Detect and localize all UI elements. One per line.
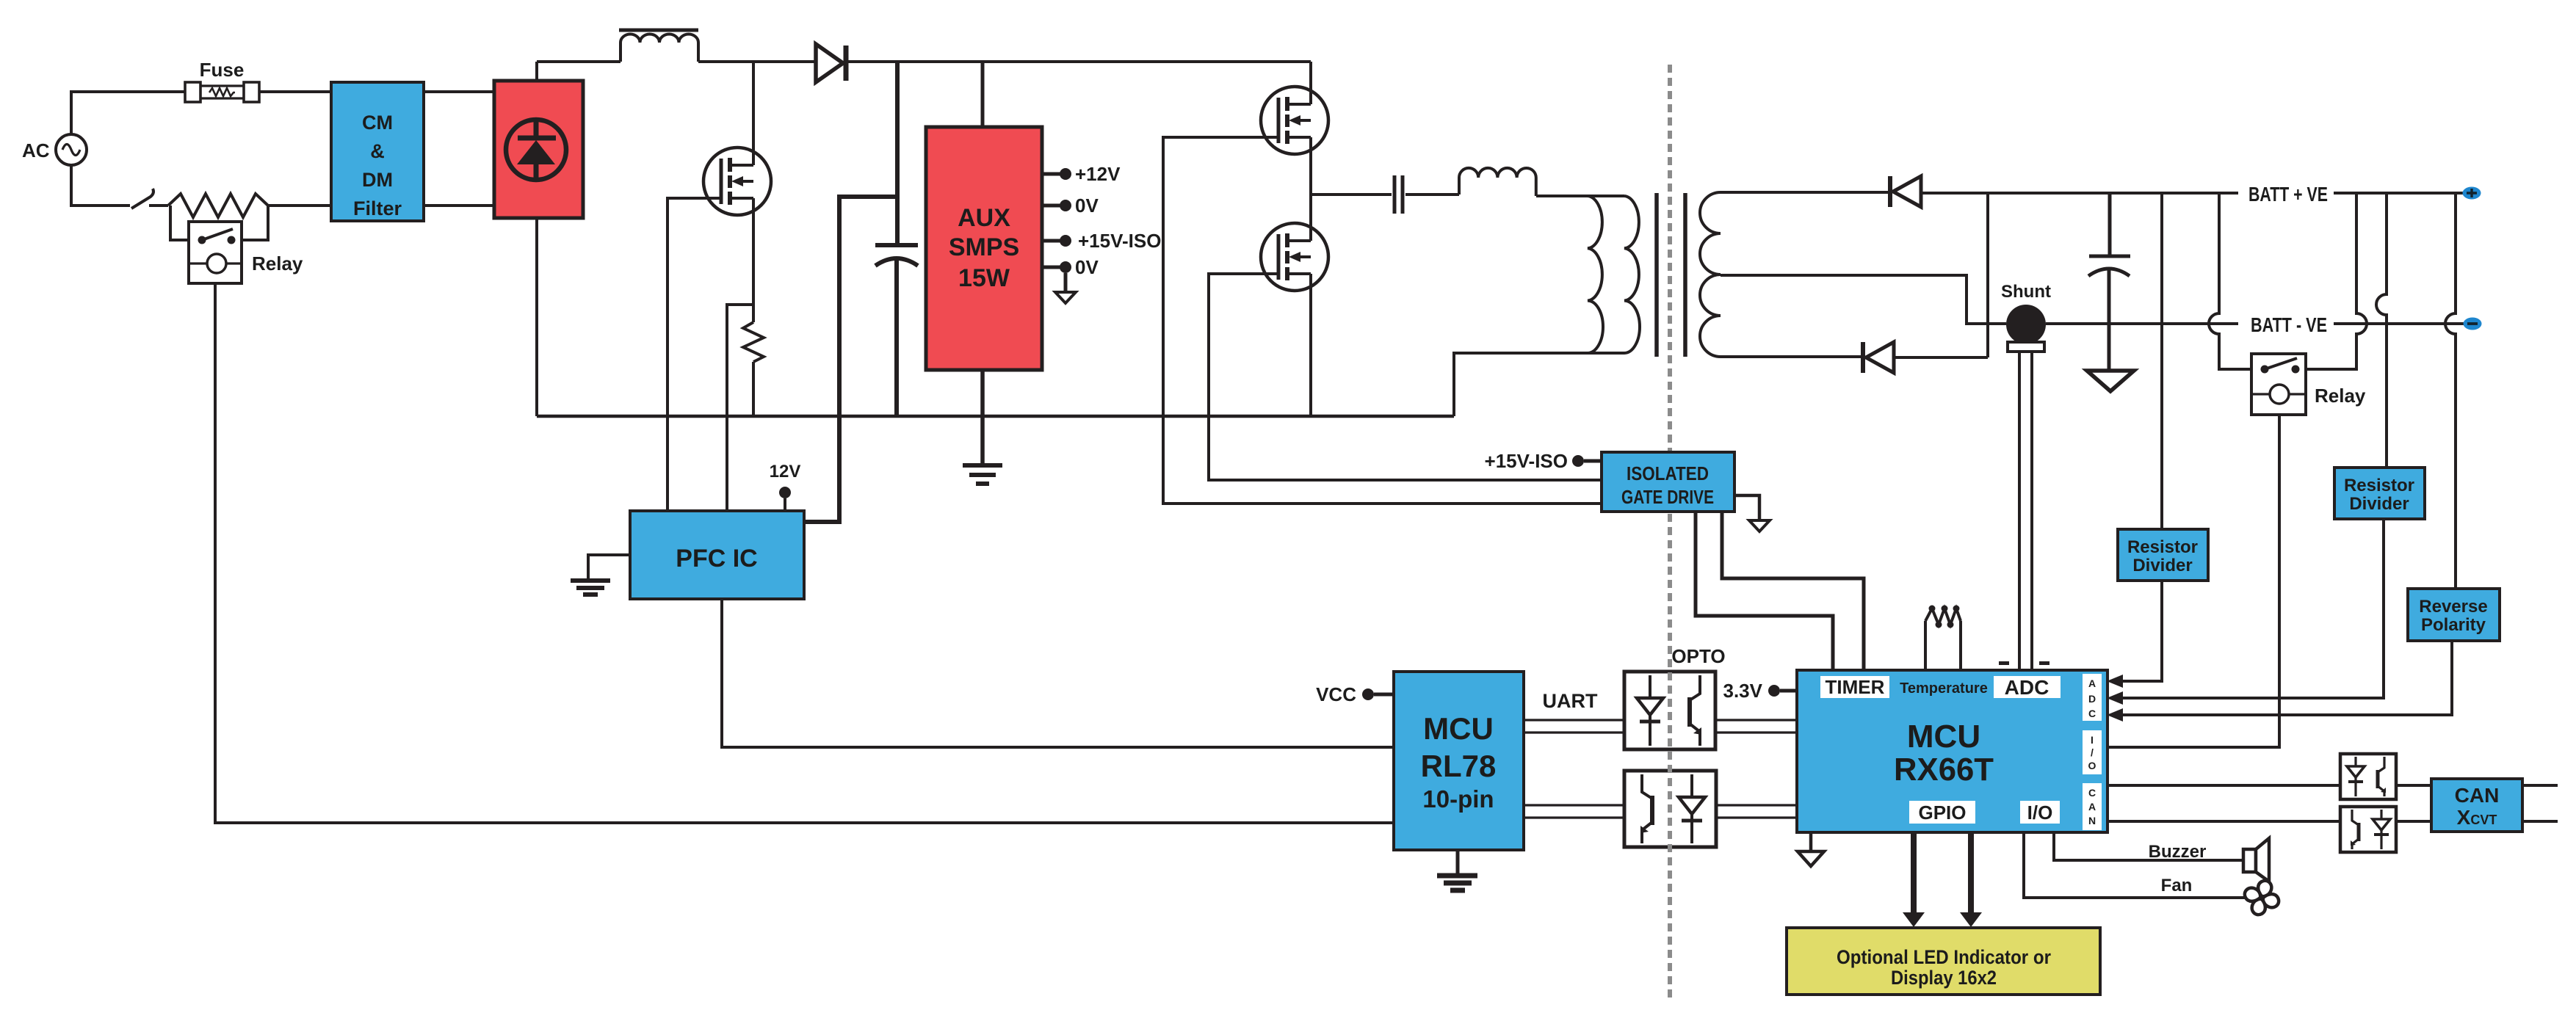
ground RL78 <box>1437 850 1477 890</box>
ground RX66T arrow <box>1798 832 1824 866</box>
wire gate drive output A to TIMER <box>1696 512 1833 670</box>
svg-text:AUX: AUX <box>958 204 1010 232</box>
transformer T1 secondary winding <box>1700 192 1721 357</box>
TIMER port <box>1820 676 1889 698</box>
svg-text:12V: 12V <box>770 462 801 482</box>
PFC IC block <box>630 511 804 599</box>
svg-text:BATT + VE: BATT + VE <box>2248 183 2328 206</box>
svg-text:Fan: Fan <box>2161 876 2193 895</box>
wire reverse polarity to ADC arrow <box>2107 641 2452 722</box>
wire BATT+VE rail <box>1921 192 2463 195</box>
wire gate drive output B to TIMER <box>1722 512 1864 670</box>
wire Q2 source to mid node <box>1309 137 1312 241</box>
wire CAN B to opto U5 <box>2108 820 2340 823</box>
capacitor C2 resonant <box>1394 175 1403 214</box>
wire Q1 drain <box>752 62 755 165</box>
MOSFET Q3 low side <box>1261 223 1328 291</box>
MOSFET Q2 high side <box>1261 87 1328 154</box>
AUX pin 0V iso <box>1042 256 1099 278</box>
GPIO port <box>1909 801 1975 824</box>
svg-text:BATT - VE: BATT - VE <box>2251 313 2327 336</box>
wire T1 primary return <box>1454 353 1624 416</box>
svg-text:Divider: Divider <box>2349 494 2409 514</box>
wire AUX ground stem <box>980 370 985 463</box>
wire PFC IC to C1 node <box>804 197 895 522</box>
bridge rectifier BR1 <box>494 81 583 218</box>
svg-text:10-pin: 10-pin <box>1422 785 1494 813</box>
optocoupler U5 <box>2340 807 2396 852</box>
wire Q3 gate to gate drive <box>1209 274 1602 480</box>
svg-text:GPIO: GPIO <box>1918 802 1966 824</box>
svg-text:UART: UART <box>1543 690 1598 712</box>
svg-text:Shunt: Shunt <box>2001 282 2051 302</box>
svg-text:VCC: VCC <box>1316 683 1356 705</box>
wire bridge to ground bus <box>535 218 538 416</box>
svg-text:DM: DM <box>362 169 393 191</box>
svg-text:+15V-ISO: +15V-ISO <box>1485 450 1568 472</box>
diode D3 bottom rectifier <box>1863 342 1894 373</box>
svg-text:Reverse: Reverse <box>2419 597 2487 617</box>
svg-text:15W: 15W <box>958 264 1010 292</box>
svg-text:+12V: +12V <box>1075 163 1121 185</box>
resistor divider RD1 <box>2118 529 2208 581</box>
svg-text:O: O <box>2088 760 2096 771</box>
svg-text:Filter: Filter <box>353 197 402 219</box>
svg-text:CM: CM <box>362 112 393 134</box>
wire BATT+ to reverse polarity <box>2445 193 2456 589</box>
wire bridge to boost rail <box>535 62 538 81</box>
MCU RL78 block <box>1394 672 1524 850</box>
relay K1 stub right <box>242 206 268 240</box>
ground AUX <box>963 465 1002 484</box>
wire top rail to C1 <box>895 62 900 245</box>
fan icon <box>2245 881 2279 915</box>
CAN side strip <box>2083 783 2102 830</box>
ADC side strip <box>2083 674 2102 721</box>
svg-text:Display 16x2: Display 16x2 <box>1891 967 1997 989</box>
wire I/O to buzzer <box>2054 832 2243 860</box>
3.3V pin <box>1723 680 1798 702</box>
svg-text:ISOLATED: ISOLATED <box>1627 462 1709 484</box>
wire opto U5 to CAN XCVT <box>2396 820 2431 823</box>
wire RL78 pair to opto U3 <box>1524 805 1624 818</box>
capacitor C3 output <box>2088 256 2130 369</box>
wire relay K2 coil to RX66T I/O <box>2108 415 2279 747</box>
CAN XCVT block <box>2431 779 2522 832</box>
svg-text:TIMER: TIMER <box>1826 676 1885 698</box>
ISOLATED GATE DRIVE block <box>1602 452 1734 512</box>
diode D2 top rectifier <box>1890 176 1921 207</box>
inductor L2 resonant <box>1459 168 1536 196</box>
wire RD1 to ADC arrow <box>2107 581 2162 688</box>
reverse polarity block <box>2408 589 2500 641</box>
wire Q2 gate to gate drive <box>1163 137 1602 504</box>
display block <box>1787 928 2100 995</box>
svg-text:I: I <box>2091 734 2094 746</box>
relay K1 stub left <box>170 206 189 240</box>
svg-text:Fuse: Fuse <box>200 59 245 81</box>
svg-text:ADC: ADC <box>2005 676 2049 699</box>
svg-text:Relay: Relay <box>2315 385 2366 407</box>
svg-text:GATE DRIVE: GATE DRIVE <box>1621 486 1714 508</box>
svg-text:A: A <box>2088 801 2096 813</box>
CM DM filter block <box>331 82 424 221</box>
GPIO arrow 2 to display <box>1960 832 1982 927</box>
wire BATT+ to relay K2 left <box>2209 193 2251 369</box>
resistor divider RD2 <box>2334 468 2425 519</box>
wire CAN XCVT out B <box>2522 820 2558 823</box>
transformer T1 primary winding <box>1588 196 1640 353</box>
svg-text:/: / <box>2091 746 2094 758</box>
+15V-ISO pin gate drive <box>1485 450 1602 472</box>
resistor R1 inrush <box>168 194 268 217</box>
wire Q1 sense stub to PFC IC <box>727 305 753 511</box>
ground gate drive <box>1734 495 1770 531</box>
wire Q1 gate to PFC IC <box>667 198 721 511</box>
wire shunt sense pair <box>2019 352 2032 670</box>
svg-text:N: N <box>2088 815 2096 826</box>
wire BATT+ to RD2 <box>2376 193 2387 468</box>
wire D1 to half bridge <box>848 60 1311 63</box>
svg-text:Polarity: Polarity <box>2421 615 2486 635</box>
ADC port <box>1994 676 2061 699</box>
wire AC to fuse <box>71 92 185 134</box>
wire mid node to C2 <box>1311 193 1392 196</box>
wire opto U3 to RX66T <box>1716 805 1797 818</box>
AUX pin +15V-ISO <box>1042 230 1161 252</box>
wire Q2 drain from rail <box>1309 62 1312 104</box>
wire fuse to CM filter <box>259 90 331 93</box>
AUX pin 0V <box>1042 195 1099 217</box>
wire secondary center tap to shunt <box>1721 275 2006 324</box>
svg-text:CAN: CAN <box>2455 784 2500 807</box>
wire AUX SMPS stem top <box>981 62 985 127</box>
isolation barrier dashed <box>1668 65 1672 998</box>
wire opto U4 to CAN XCVT <box>2396 784 2431 787</box>
svg-text:Optional LED Indicator or: Optional LED Indicator or <box>1837 946 2051 968</box>
relay K1 <box>189 222 303 283</box>
svg-text:OPTO: OPTO <box>1671 645 1725 667</box>
wire CM filter to bridge top <box>424 90 494 93</box>
shunt <box>2001 282 2051 352</box>
wire CAN A to opto U4 <box>2108 784 2340 787</box>
wire BATT+ to capacitor C3 <box>2108 193 2112 255</box>
svg-text:MCU: MCU <box>1423 711 1494 746</box>
wire D3 to rectifier junction <box>1894 356 1988 359</box>
primary ground bus <box>537 415 1454 418</box>
wire top rail bridge to L1 <box>537 60 621 63</box>
svg-text:SMPS: SMPS <box>949 233 1019 261</box>
wire relay K1 to MCU RL78 <box>215 283 1394 823</box>
wire opto U2 to RX66T <box>1715 720 1797 733</box>
wire R2 to bus <box>752 362 755 416</box>
wire rectifier junction vertical <box>1986 192 1989 357</box>
wire RD2 to ADC arrow <box>2107 519 2384 705</box>
buzzer icon <box>2243 838 2269 882</box>
svg-text:Divider: Divider <box>2132 556 2192 575</box>
svg-text:Resistor: Resistor <box>2344 476 2414 495</box>
optocoupler U3 <box>1624 771 1716 847</box>
wire BATT-VE rail <box>2046 322 2464 325</box>
terminal BATT+ <box>2463 187 2481 200</box>
svg-text:Relay: Relay <box>252 252 303 275</box>
fuse F1 <box>185 59 259 102</box>
wire secondary top to D2 <box>1721 191 1888 194</box>
wire Q1 source <box>752 198 755 322</box>
wire CM filter to bridge bottom <box>424 204 494 207</box>
temperature sensor icon <box>1925 606 1961 671</box>
MOSFET Q1 boost <box>703 148 771 215</box>
wire CAN XCVT out A <box>2522 784 2558 787</box>
svg-text:0V: 0V <box>1075 256 1099 278</box>
svg-text:RX66T: RX66T <box>1894 752 1994 788</box>
AC source <box>22 134 87 165</box>
terminal BATT- <box>2464 318 2482 330</box>
svg-text:MCU: MCU <box>1907 719 1980 755</box>
wire L2 to transformer <box>1536 195 1624 197</box>
svg-text:0V: 0V <box>1075 195 1099 217</box>
svg-text:C: C <box>2088 708 2096 719</box>
minus label sense 1 <box>1999 661 2009 665</box>
svg-text:I/O: I/O <box>2027 802 2053 824</box>
svg-text:Resistor: Resistor <box>2127 537 2198 557</box>
svg-text:Temperature: Temperature <box>1900 680 1988 697</box>
transformer T1 core <box>1654 193 1659 357</box>
svg-text:PFC IC: PFC IC <box>676 545 757 573</box>
capacitor C1 dc link <box>875 245 918 416</box>
wire L1 to diode D1 <box>698 60 816 63</box>
minus label sense 2 <box>2039 661 2049 665</box>
boost inductor L1 <box>619 30 698 62</box>
svg-text:C: C <box>2088 787 2096 799</box>
ground PFC <box>571 581 610 595</box>
wire PFC IC to MCU RL78 <box>722 599 1394 747</box>
wire UART pair to opto U2 <box>1524 720 1624 733</box>
GPIO arrow 1 to display <box>1903 832 1925 927</box>
wire switch to resistor <box>149 204 168 207</box>
ground C3 arrow <box>2087 371 2134 391</box>
svg-text:&: & <box>370 140 385 162</box>
12V label <box>770 462 801 511</box>
I/O side strip <box>2083 730 2102 774</box>
MCU RX66T block <box>1797 670 2108 832</box>
svg-text:+15V-ISO: +15V-ISO <box>1078 230 1161 252</box>
svg-text:Buzzer: Buzzer <box>2149 842 2207 862</box>
svg-text:RL78: RL78 <box>1421 749 1497 783</box>
AUX 0V ground arrow <box>1055 273 1076 303</box>
wire AC to switch <box>71 166 130 206</box>
AUX pin +12V <box>1042 163 1121 185</box>
PFC ground stub <box>588 555 630 578</box>
relay K2 <box>2251 354 2366 415</box>
AUX SMPS block <box>926 127 1042 370</box>
wire secondary bottom to D3 <box>1721 355 1863 358</box>
boost diode D1 <box>816 44 846 82</box>
optocoupler U2 <box>1624 672 1715 749</box>
wire relay K2 right to BATT- <box>2306 193 2367 369</box>
I/O port <box>2020 801 2060 824</box>
svg-text:A: A <box>2088 677 2096 689</box>
wire BATT+ to RD1 <box>2160 193 2163 529</box>
optocoupler U4 <box>2340 754 2396 799</box>
svg-text:AC: AC <box>22 139 50 161</box>
svg-text:D: D <box>2088 693 2096 705</box>
wire I/O to fan <box>2024 832 2246 898</box>
resistor R2 sense <box>743 322 764 362</box>
wire Q3 source to bus <box>1309 274 1312 416</box>
svg-text:3.3V: 3.3V <box>1723 680 1763 702</box>
VCC pin <box>1316 683 1394 705</box>
wire resistor to CM filter <box>268 204 331 207</box>
wire C2 to L2 <box>1405 193 1459 196</box>
switch SW1 <box>131 189 153 208</box>
